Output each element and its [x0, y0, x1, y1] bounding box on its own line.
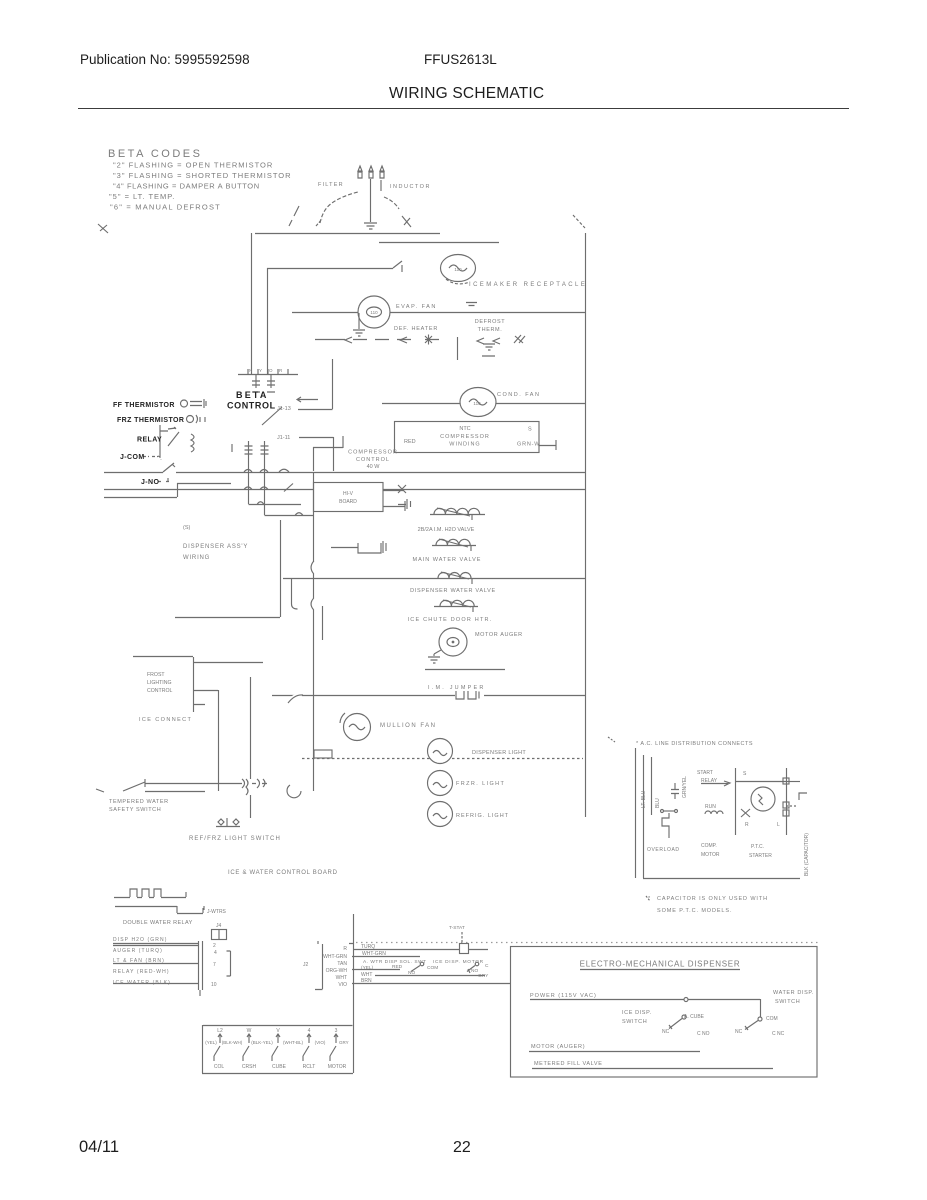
svg-text:COMPRESSOR: COMPRESSOR	[348, 450, 398, 456]
svg-text:WINDING: WINDING	[449, 442, 480, 448]
svg-text:J-COM: J-COM	[120, 454, 145, 461]
svg-text:RED: RED	[392, 964, 403, 970]
svg-text:AUGER (TURQ): AUGER (TURQ)	[113, 948, 163, 954]
svg-text:ICE DISP. MOTOR: ICE DISP. MOTOR	[433, 959, 484, 965]
svg-text:GRY: GRY	[339, 1040, 349, 1045]
svg-text:R: R	[745, 822, 749, 828]
svg-text:DISPENSER LIGHT: DISPENSER LIGHT	[472, 750, 526, 756]
svg-text:INDUCTOR: INDUCTOR	[390, 184, 431, 190]
svg-text:(BLK-WH): (BLK-WH)	[222, 1040, 243, 1045]
svg-text:S: S	[743, 771, 747, 777]
svg-text:"6" = MANUAL DEFROST: "6" = MANUAL DEFROST	[110, 203, 221, 212]
svg-text:CRSH: CRSH	[242, 1064, 257, 1070]
svg-text:(BLK-YEL): (BLK-YEL)	[251, 1040, 273, 1045]
svg-text:COL: COL	[214, 1064, 225, 1070]
svg-text:MAIN WATER VALVE: MAIN WATER VALVE	[413, 557, 482, 563]
svg-text:REF/FRZ LIGHT SWITCH: REF/FRZ LIGHT SWITCH	[189, 836, 281, 842]
svg-text:2B/2A I.M. H2O VALVE: 2B/2A I.M. H2O VALVE	[418, 527, 475, 533]
svg-text:40 W: 40 W	[367, 464, 381, 470]
svg-text:NC: NC	[735, 1029, 743, 1035]
svg-text:CONTROL: CONTROL	[227, 401, 276, 411]
svg-text:RUN: RUN	[705, 804, 716, 810]
svg-text:CUBE: CUBE	[272, 1064, 287, 1070]
svg-text:MOTOR: MOTOR	[328, 1064, 347, 1070]
svg-text:ICE CONNECT: ICE CONNECT	[139, 717, 192, 723]
svg-text:Y: Y	[259, 368, 262, 373]
svg-text:BETA: BETA	[236, 390, 269, 400]
svg-text:REFRIG. LIGHT: REFRIG. LIGHT	[456, 813, 509, 819]
svg-text:ELECTRO-MECHANICAL DISPENSER: ELECTRO-MECHANICAL DISPENSER	[580, 960, 741, 969]
svg-text:COM: COM	[427, 965, 438, 971]
svg-text:POWER (115V VAC): POWER (115V VAC)	[530, 993, 597, 999]
svg-text:RCLT: RCLT	[303, 1064, 316, 1070]
svg-text:"2" FLASHING = OPEN THERMIST: "2" FLASHING = OPEN THERMISTOR	[113, 161, 273, 170]
svg-text:*: *	[648, 896, 651, 902]
svg-text:4: 4	[214, 950, 217, 956]
svg-text:P.T.C.: P.T.C.	[751, 844, 764, 850]
svg-text:10: 10	[211, 982, 217, 988]
svg-text:OVERLOAD: OVERLOAD	[647, 847, 680, 853]
svg-text:FRZR. LIGHT: FRZR. LIGHT	[456, 781, 505, 787]
svg-text:WHT: WHT	[336, 975, 347, 981]
svg-text:J2: J2	[303, 962, 309, 968]
svg-text:WIRING: WIRING	[183, 555, 210, 561]
svg-text:"4" FLASHING = DAMPER A BUTTON: "4" FLASHING = DAMPER A BUTTON	[113, 182, 260, 191]
svg-text:O: O	[269, 368, 273, 373]
svg-text:TURQ: TURQ	[361, 944, 375, 950]
svg-text:RELAY: RELAY	[701, 778, 718, 784]
svg-text:GRN/YEL: GRN/YEL	[682, 776, 688, 798]
svg-text:SWITCH: SWITCH	[775, 999, 800, 1005]
svg-text:I.M. JUMPER: I.M. JUMPER	[428, 685, 486, 691]
svg-text:"5" = LT. TEMP.: "5" = LT. TEMP.	[109, 192, 175, 201]
svg-text:NTC: NTC	[459, 426, 470, 432]
svg-text:COMPRESSOR: COMPRESSOR	[440, 434, 490, 440]
svg-text:HI-V: HI-V	[343, 491, 354, 497]
svg-text:STARTER: STARTER	[749, 853, 772, 859]
svg-text:SAFETY SWITCH: SAFETY SWITCH	[109, 807, 161, 813]
svg-text:GRN-W: GRN-W	[517, 442, 540, 448]
svg-text:COND. FAN: COND. FAN	[497, 392, 540, 398]
svg-text:SOME P.T.C. MODELS.: SOME P.T.C. MODELS.	[657, 908, 732, 914]
svg-text:(WHT-BL): (WHT-BL)	[283, 1040, 303, 1045]
svg-text:MOTOR AUGER: MOTOR AUGER	[475, 632, 523, 638]
svg-text:METERED FILL VALVE: METERED FILL VALVE	[534, 1061, 602, 1067]
svg-text:C NC: C NC	[772, 1031, 785, 1037]
svg-text:L2: L2	[217, 1028, 223, 1034]
svg-text:A. CUBE: A. CUBE	[684, 1014, 705, 1020]
svg-text:CONTROL: CONTROL	[356, 457, 390, 463]
svg-text:MOTOR (AUGER): MOTOR (AUGER)	[531, 1044, 585, 1050]
svg-text:L: L	[777, 822, 780, 828]
svg-text:R: R	[343, 946, 347, 952]
svg-text:ICE DISP.: ICE DISP.	[622, 1010, 652, 1016]
svg-text:DEF. HEATER: DEF. HEATER	[394, 326, 438, 332]
svg-text:2: 2	[213, 943, 216, 949]
svg-text:W: W	[247, 1028, 252, 1034]
svg-text:BLU: BLU	[655, 798, 661, 808]
svg-text:FF THERMISTOR: FF THERMISTOR	[113, 402, 175, 409]
svg-text:(VIO): (VIO)	[315, 1040, 326, 1045]
svg-text:RED: RED	[404, 439, 416, 445]
svg-text:3: 3	[335, 1028, 338, 1034]
svg-text:(S): (S)	[183, 525, 191, 531]
svg-text:FROST: FROST	[147, 672, 165, 678]
svg-text:TAN: TAN	[337, 961, 347, 967]
svg-text:(YEL): (YEL)	[205, 1040, 217, 1045]
svg-text:J-NO: J-NO	[141, 479, 159, 486]
svg-text:MOTOR: MOTOR	[701, 852, 720, 858]
svg-text:R: R	[279, 368, 283, 373]
svg-text:CAPACITOR IS ONLY USED WITH: CAPACITOR IS ONLY USED WITH	[657, 896, 768, 902]
svg-text:N: N	[249, 368, 252, 373]
svg-text:ICEMAKER RECEPTACLE: ICEMAKER RECEPTACLE	[469, 282, 587, 288]
svg-text:NC: NC	[662, 1029, 670, 1035]
svg-text:* A.C. LINE DISTRIBUTION CONN: * A.C. LINE DISTRIBUTION CONNECTS	[636, 741, 753, 747]
svg-text:LT. BLU: LT. BLU	[641, 790, 647, 808]
svg-text:RELAY (RED-WH): RELAY (RED-WH)	[113, 969, 170, 975]
svg-text:DOUBLE WATER RELAY: DOUBLE WATER RELAY	[123, 920, 193, 926]
svg-text:110: 110	[473, 401, 481, 406]
svg-text:J4: J4	[216, 923, 222, 929]
svg-text:ORG-WH: ORG-WH	[326, 968, 348, 974]
svg-text:WHT-GRN: WHT-GRN	[362, 951, 386, 957]
svg-text:COM: COM	[766, 1016, 778, 1022]
svg-text:SWITCH: SWITCH	[622, 1019, 647, 1025]
svg-text:NO: NO	[408, 970, 415, 976]
svg-text:V: V	[276, 1028, 280, 1034]
svg-text:(YEL): (YEL)	[361, 965, 374, 971]
svg-text:DISPENSER ASS'Y: DISPENSER ASS'Y	[183, 544, 248, 550]
svg-text:4: 4	[308, 1028, 311, 1034]
svg-text:7: 7	[213, 962, 216, 968]
svg-text:DISP H2O (GRN): DISP H2O (GRN)	[113, 937, 167, 943]
svg-text:VIO: VIO	[338, 982, 347, 988]
svg-text:J1-13: J1-13	[277, 406, 291, 412]
svg-text:"3" FLASHING = SHORTED THERM: "3" FLASHING = SHORTED THERMISTOR	[113, 171, 292, 180]
svg-text:J1-11: J1-11	[277, 435, 290, 441]
svg-text:C NO: C NO	[697, 1031, 710, 1037]
svg-text:EVAP. FAN: EVAP. FAN	[396, 304, 437, 310]
svg-text:TEMPERED WATER: TEMPERED WATER	[109, 799, 169, 805]
svg-text:LIGHTING: LIGHTING	[147, 680, 172, 686]
svg-text:ICE & WATER CONTROL BOARD: ICE & WATER CONTROL BOARD	[228, 870, 338, 876]
svg-text:LT & FAN (BRN): LT & FAN (BRN)	[113, 958, 165, 964]
svg-text:WHT-GRN: WHT-GRN	[323, 954, 347, 960]
svg-text:110: 110	[370, 310, 378, 315]
svg-text:BOARD: BOARD	[339, 499, 357, 505]
svg-text:START: START	[697, 770, 713, 776]
svg-text:ICE WATER (BLK): ICE WATER (BLK)	[113, 980, 171, 986]
svg-text:BLK (CAPACITOR): BLK (CAPACITOR)	[804, 833, 810, 876]
svg-text:WATER DISP.: WATER DISP.	[773, 990, 814, 996]
svg-text:FRZ THERMISTOR: FRZ THERMISTOR	[117, 417, 184, 424]
svg-text:BETA CODES: BETA CODES	[108, 148, 202, 160]
svg-text:BRN: BRN	[361, 978, 372, 984]
svg-text:T-STAT: T-STAT	[449, 925, 465, 931]
svg-text:GRY: GRY	[478, 973, 489, 979]
svg-text:RELAY: RELAY	[137, 437, 162, 444]
svg-text:COMP.: COMP.	[701, 843, 717, 849]
svg-text:ICE CHUTE DOOR HTR.: ICE CHUTE DOOR HTR.	[408, 617, 493, 623]
svg-text:110: 110	[454, 267, 462, 272]
svg-text:MULLION FAN: MULLION FAN	[380, 723, 437, 729]
svg-text:FILTER: FILTER	[318, 182, 344, 188]
svg-text:C: C	[485, 963, 489, 969]
svg-text:DISPENSER WATER VALVE: DISPENSER WATER VALVE	[410, 588, 496, 594]
svg-text:DEFROST: DEFROST	[475, 319, 506, 325]
svg-text:CONTROL: CONTROL	[147, 688, 172, 694]
svg-text:THERM.: THERM.	[478, 327, 503, 333]
svg-text:S: S	[528, 427, 532, 433]
svg-text:J-WTRS: J-WTRS	[207, 909, 227, 915]
